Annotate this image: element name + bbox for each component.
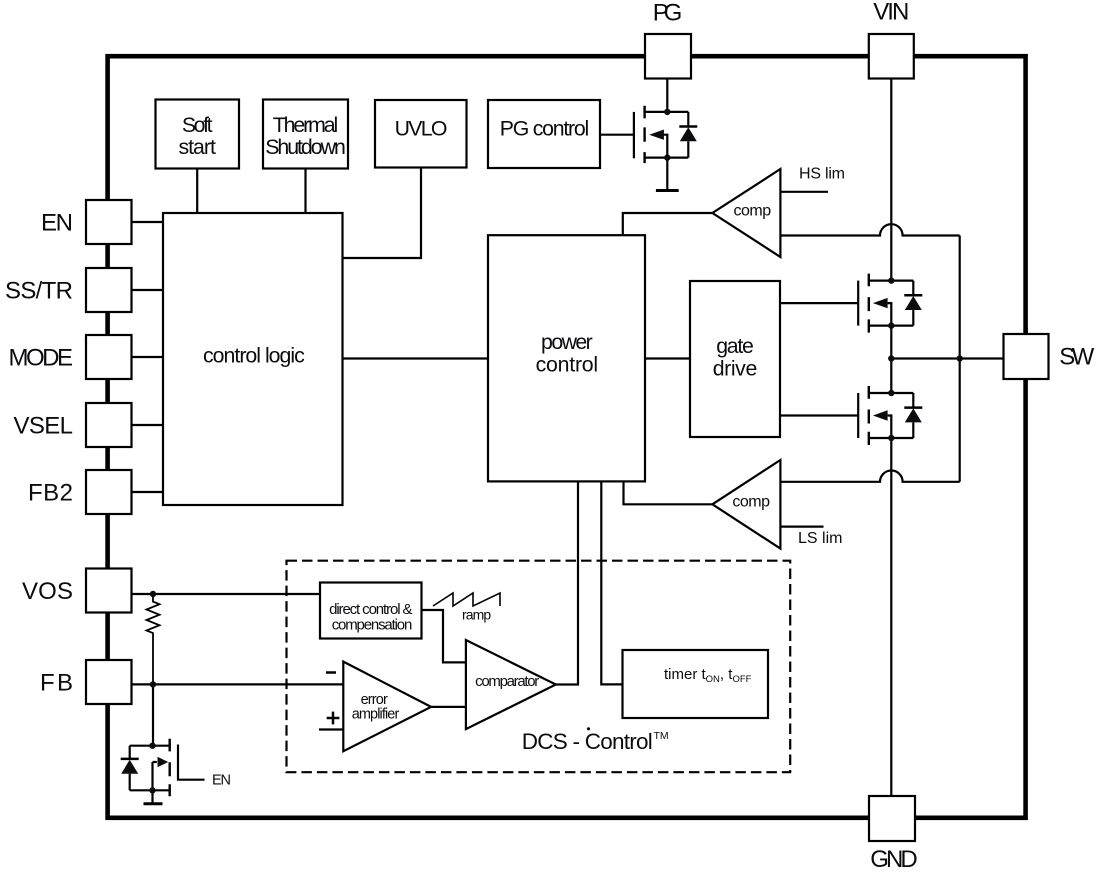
ground at PG FET source <box>656 158 679 191</box>
transistor LS FET with body diode <box>858 386 922 445</box>
wire LS comp output to power control <box>624 482 713 505</box>
block Thermal Shutdown <box>263 100 348 169</box>
svg-text:comp: comp <box>734 202 772 219</box>
op-amp comparator HS current limit (comp) <box>712 169 780 257</box>
node FB junction <box>150 681 156 687</box>
wire HS lim stub <box>780 191 828 193</box>
svg-text:VOS: VOS <box>22 578 73 605</box>
svg-text:LS lim: LS lim <box>798 530 843 547</box>
wire thermal shutdown to control logic <box>304 169 306 214</box>
svg-text:DCS - Control: DCS - Control <box>522 729 653 754</box>
plus sign at error amplifier input <box>327 712 340 725</box>
svg-text:Shutdown: Shutdown <box>265 135 346 159</box>
wire SW node to SW pin <box>891 357 1003 359</box>
block direct control and compensation <box>320 583 422 639</box>
pin MODE <box>9 335 132 379</box>
wire FB2 pin to control logic <box>132 491 164 493</box>
node LS FET source <box>888 435 894 441</box>
block power control <box>488 235 645 481</box>
svg-text:FB: FB <box>40 670 73 697</box>
wire LS FET source to GND pin <box>890 438 892 796</box>
pin FB <box>40 660 132 704</box>
wire power control to comparator output node <box>556 482 578 685</box>
svg-text:comp: comp <box>732 493 770 510</box>
svg-text:PG: PG <box>653 0 683 26</box>
svg-text:FB2: FB2 <box>28 480 73 507</box>
svg-text:comparator: comparator <box>475 673 539 690</box>
op-amp comparator (DCS control) <box>466 640 556 729</box>
resistor (VOS to FB divider) <box>147 594 160 684</box>
wire VIN pin to HS FET drain <box>890 79 892 281</box>
svg-text:GND: GND <box>870 846 918 873</box>
wire PG control to PG FET gate <box>600 134 634 136</box>
node LS FET drain <box>888 390 894 396</box>
svg-text:UVLO: UVLO <box>395 116 448 140</box>
svg-text:Soft: Soft <box>182 113 213 137</box>
op-amp comparator LS current limit (comp) <box>712 460 780 549</box>
svg-text:EN: EN <box>212 772 231 788</box>
wire gate drive to HS FET gate <box>780 302 858 304</box>
block timer tON tOFF <box>623 650 769 718</box>
pin FB2 <box>28 470 132 514</box>
pin EN <box>41 200 132 244</box>
wire control logic to power control <box>343 357 489 359</box>
pin GND <box>869 796 918 873</box>
DCS-Control dashed boundary <box>287 561 791 773</box>
svg-text:control logic: control logic <box>203 344 305 368</box>
node HS FET source <box>888 322 894 328</box>
svg-text:control: control <box>536 352 599 376</box>
svg-text:TM: TM <box>654 730 669 742</box>
pin PG <box>645 0 691 78</box>
minus sign at error amplifier input <box>326 671 336 674</box>
wire LS current sense with hop over GND line <box>780 470 959 481</box>
block PG control <box>488 100 600 168</box>
svg-text:MODE: MODE <box>9 345 74 372</box>
node EN FET source <box>149 787 155 793</box>
pin VSEL <box>14 403 132 447</box>
node PG FET drain <box>664 109 670 115</box>
svg-text:gate: gate <box>716 334 754 358</box>
svg-text:ramp: ramp <box>462 606 491 622</box>
wire error amp + input stub <box>319 728 343 730</box>
svg-text:SW: SW <box>1059 344 1094 371</box>
svg-text:compensation: compensation <box>332 617 413 634</box>
ground at EN FET source <box>144 790 163 804</box>
wire UVLO to control logic <box>343 168 422 259</box>
svg-text:SS/TR: SS/TR <box>5 278 73 305</box>
svg-text:direct control &: direct control & <box>329 601 412 618</box>
wire power control to gate drive <box>645 357 690 359</box>
node SW junction <box>888 355 894 361</box>
svg-text:start: start <box>178 135 216 159</box>
svg-text:Thermal: Thermal <box>273 113 339 137</box>
block Soft start <box>156 100 240 169</box>
block gate drive <box>690 281 780 437</box>
IC boundary (thick outer rectangle) <box>108 56 1026 818</box>
wire EN pin to control logic <box>132 221 164 223</box>
wire direct control output to comparator input <box>422 610 466 662</box>
wire HS comp output to power control <box>623 213 713 235</box>
pin SS/TR <box>5 268 132 312</box>
pin VOS <box>22 569 132 613</box>
transistor HS FET with body diode <box>858 274 922 333</box>
wire FB node to EN FET drain <box>152 684 154 745</box>
svg-text:EN: EN <box>41 210 73 237</box>
label DCS - Control TM <box>522 727 669 754</box>
wire soft start to control logic <box>196 169 198 214</box>
svg-text:PG control: PG control <box>500 116 590 140</box>
wire sense line vertical to SW node <box>959 236 961 482</box>
block UVLO <box>375 100 467 168</box>
op-amp error amplifier <box>343 662 431 752</box>
wire power control to timer <box>601 482 622 685</box>
transistor EN FET (FB discharge, mirrored) with body diode <box>121 739 205 797</box>
wire MODE pin to control logic <box>132 356 164 358</box>
pin VIN <box>869 0 914 79</box>
svg-text:amplifier: amplifier <box>352 706 400 722</box>
svg-text:VSEL: VSEL <box>14 413 74 440</box>
svg-text:drive: drive <box>713 356 758 380</box>
transistor PG FET with body diode <box>634 106 697 163</box>
wire VOS pin to direct control block <box>132 593 321 595</box>
node sense line at SW <box>957 355 963 361</box>
block control logic <box>163 213 343 505</box>
wire error amp output to comparator <box>431 706 466 708</box>
node PG FET source <box>664 154 670 160</box>
wire VSEL pin to control logic <box>132 424 164 426</box>
node VOS divider tap <box>150 591 156 597</box>
node HS FET drain <box>888 277 894 283</box>
svg-text:HS lim: HS lim <box>799 165 845 182</box>
pin SW <box>1004 334 1095 379</box>
svg-text:VIN: VIN <box>873 0 909 26</box>
wire FB pin to error amplifier inverting input <box>132 683 344 685</box>
wire PG pin to PG FET drain <box>666 79 668 112</box>
node EN FET drain <box>149 743 155 749</box>
wire LS lim stub <box>780 525 823 527</box>
svg-text:power: power <box>541 330 593 354</box>
wire HS FET source to LS FET drain (SW node) <box>890 326 892 393</box>
wire HS current sense with hop over VIN line <box>780 224 959 235</box>
wire SS/TR pin to control logic <box>132 289 164 291</box>
wire gate drive to LS FET gate <box>780 414 858 416</box>
ramp waveform symbol <box>433 593 500 606</box>
